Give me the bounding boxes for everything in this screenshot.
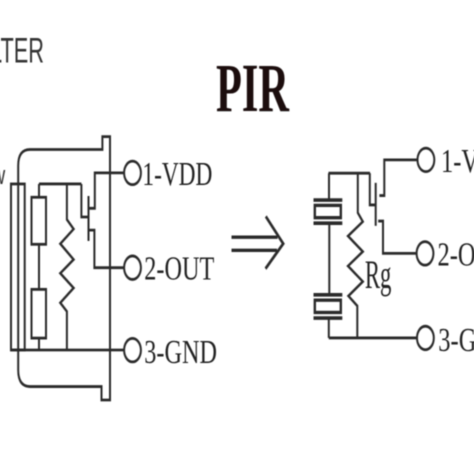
pyro element D2 (right, capacitor style) bbox=[314, 295, 343, 318]
transistor Q1 gate wire bbox=[81, 184, 87, 217]
wire: D2 to bottom rail bbox=[328, 318, 330, 338]
transistor Q1 source (to pin 2) bbox=[90, 230, 125, 268]
pin 3 terminal circle (right) bbox=[417, 326, 434, 350]
pyro element E1 (left, top) bbox=[32, 197, 47, 244]
wire: rail to element D1 bbox=[328, 173, 330, 200]
pyro element D1 (right, capacitor style) bbox=[314, 200, 343, 223]
pin 3 terminal circle (left) bbox=[124, 338, 141, 362]
svg-text:3-GND: 3-GND bbox=[144, 333, 217, 371]
svg-text:2-OUT: 2-OUT bbox=[144, 249, 214, 287]
transistor Q2 gate wire bbox=[370, 173, 375, 205]
equivalence arrow (double shaft) bbox=[232, 216, 284, 268]
IR window / filter rectangle bbox=[11, 184, 25, 350]
wire: rail to E1 bbox=[38, 184, 40, 197]
pin 1 terminal circle (right) bbox=[418, 148, 435, 172]
transistor Q2 source (to pin 2) bbox=[378, 221, 417, 253]
pin 2 terminal circle (right) bbox=[417, 242, 434, 266]
svg-text:2-OUT: 2-OUT bbox=[438, 236, 474, 274]
transistor Q1 drain (to pin 1) bbox=[90, 173, 125, 208]
svg-text:PIR: PIR bbox=[216, 50, 289, 127]
pin 2 terminal circle (left) bbox=[124, 256, 141, 280]
resistor Rg (zigzag) bbox=[348, 173, 363, 338]
svg-text:1-VDD: 1-VDD bbox=[142, 155, 212, 193]
wire: E1 to E2 bbox=[38, 244, 40, 289]
svg-text:w: w bbox=[0, 160, 5, 190]
wire: D1 to D2 bbox=[328, 223, 330, 295]
node: top rail (right circuit) bbox=[329, 172, 371, 174]
transistor Q1 gate bar bbox=[88, 196, 90, 241]
svg-text:3-GND: 3-GND bbox=[438, 321, 474, 359]
transistor Q2 drain (to pin 1) bbox=[379, 160, 418, 196]
node: bottom internal rail / GND lead (left) bbox=[11, 349, 125, 351]
PIR sensor package outline (metal can, left) bbox=[18, 137, 110, 400]
resistor R (left, zigzag) bbox=[60, 184, 73, 350]
svg-text:LTER: LTER bbox=[0, 31, 44, 70]
svg-text:1-VDD: 1-VDD bbox=[441, 142, 474, 180]
pyro element E2 (left, bottom) bbox=[32, 289, 47, 338]
pin 1 terminal circle (left) bbox=[124, 161, 141, 185]
node: top internal rail (left) bbox=[39, 183, 81, 185]
transistor Q2 gate bar bbox=[375, 183, 377, 226]
node: bottom rail (right circuit) to pin 3 bbox=[329, 337, 417, 339]
svg-text:Rg: Rg bbox=[365, 252, 392, 297]
wire: E2 to bottom rail bbox=[38, 338, 40, 350]
